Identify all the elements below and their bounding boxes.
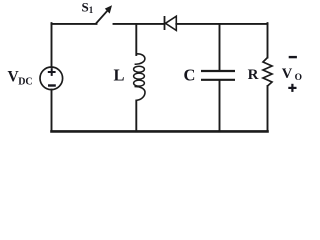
voltage source plus sign [48,68,56,76]
inductor L coil bottom hook [135,87,146,101]
wire capacitor branch upper [219,24,221,71]
inductor L coil loop 2 [134,73,145,79]
wire left branch lower [51,90,53,132]
diode D1 cathode bar [164,16,166,30]
svg-text:O: O [295,73,302,83]
svg-text:DC: DC [18,77,32,88]
diode D1 triangle [165,16,176,30]
wire top rail right segment [176,23,267,25]
wire inductor branch upper [135,24,137,55]
inductor L coil loop 1 [134,66,145,72]
inductor L coil loop 3 [134,80,145,86]
wire right branch lower [267,86,269,131]
wire capacitor branch lower [219,80,221,131]
label minus output [289,56,297,58]
wire inductor branch lower [135,101,137,132]
svg-text:C: C [184,66,196,85]
wire bottom rail [52,130,268,133]
wire left branch upper [51,23,53,67]
svg-text:S: S [82,0,89,14]
switch S1 blade [96,10,108,24]
svg-text:V: V [282,66,293,82]
capacitor C bottom plate [201,79,235,81]
svg-text:R: R [248,67,259,83]
wire right branch upper [267,23,269,57]
wire top rail left segment [52,23,97,25]
voltage source minus sign [48,84,56,86]
capacitor C top plate [201,70,235,72]
voltage source VDC circle [40,67,63,90]
inductor L coil top hook [135,54,145,64]
label plus output [288,87,296,89]
wire top rail middle segment [114,23,165,25]
svg-text:1: 1 [89,5,94,15]
switch S1 arrowhead [105,5,112,13]
resistor R zigzag [263,58,272,87]
svg-text:L: L [114,66,125,85]
